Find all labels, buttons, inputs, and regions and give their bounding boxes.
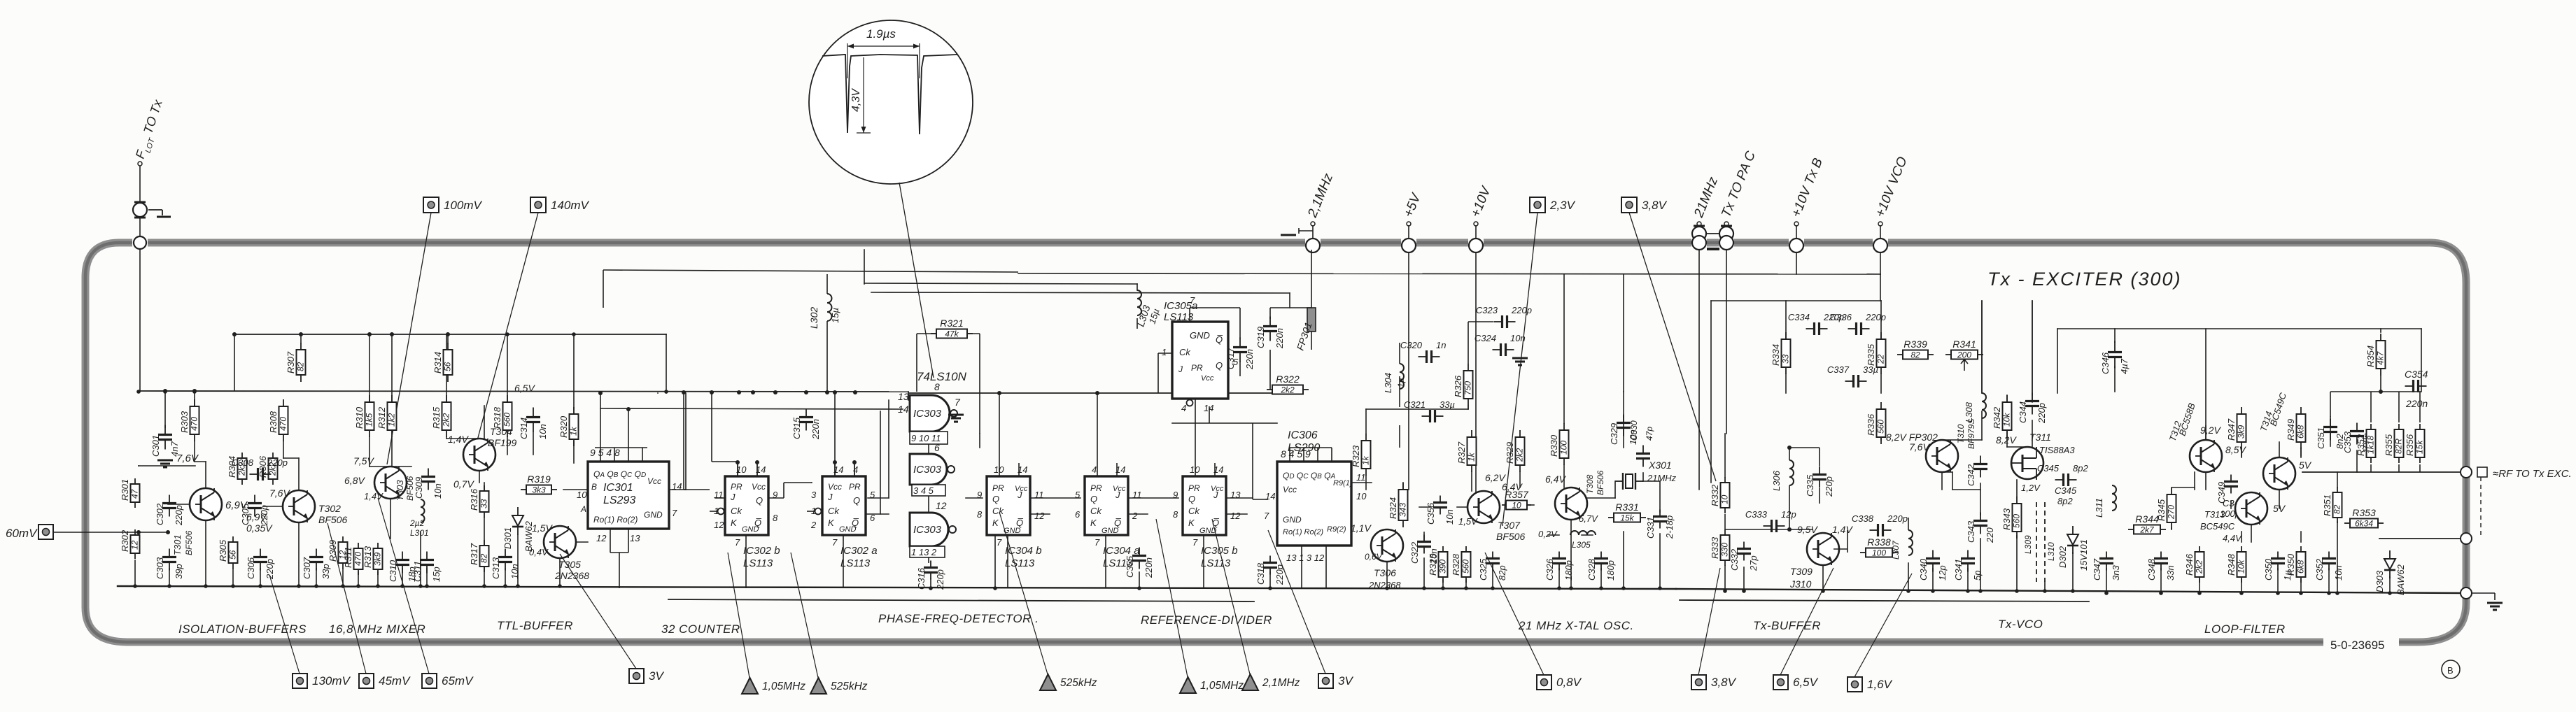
svg-text:IC306: IC306 xyxy=(1288,429,1318,441)
svg-text:R316: R316 xyxy=(469,488,479,511)
svg-text:J310: J310 xyxy=(1789,578,1812,590)
svg-text:C317: C317 xyxy=(1225,347,1236,369)
svg-text:10n: 10n xyxy=(537,424,548,439)
svg-text:C314: C314 xyxy=(519,418,529,439)
svg-text:10: 10 xyxy=(1720,494,1730,504)
svg-text:T302: T302 xyxy=(318,503,341,514)
svg-text:4: 4 xyxy=(1181,403,1186,413)
svg-text:220p: 220p xyxy=(174,505,184,526)
svg-text:21 MHz X-TAL OSC.: 21 MHz X-TAL OSC. xyxy=(1518,619,1634,632)
svg-text:C303: C303 xyxy=(155,557,165,579)
svg-text:470: 470 xyxy=(353,552,363,566)
svg-text:82: 82 xyxy=(479,553,489,563)
svg-text:R315: R315 xyxy=(431,406,442,429)
svg-text:R328: R328 xyxy=(1451,553,1461,576)
svg-text:7,5V: 7,5V xyxy=(353,455,374,467)
svg-text:R312: R312 xyxy=(376,406,387,429)
svg-text:C356: C356 xyxy=(1426,502,1436,525)
svg-text:750: 750 xyxy=(1463,381,1473,395)
svg-text:R336: R336 xyxy=(1866,413,1876,436)
svg-text:L306: L306 xyxy=(1771,470,1782,491)
svg-text:3: 3 xyxy=(811,490,817,500)
svg-text:15µ: 15µ xyxy=(830,308,840,323)
svg-text:3k9: 3k9 xyxy=(2237,425,2246,439)
svg-text:7: 7 xyxy=(735,537,740,548)
svg-text:BF979S: BF979S xyxy=(1966,419,1976,449)
svg-text:7: 7 xyxy=(1192,537,1198,548)
svg-text:4: 4 xyxy=(853,464,858,475)
svg-text:R320: R320 xyxy=(558,415,569,438)
svg-text:L311: L311 xyxy=(2094,498,2104,518)
svg-text:C330: C330 xyxy=(1629,420,1639,441)
svg-text:C338: C338 xyxy=(1852,513,1874,524)
svg-text:BAW62: BAW62 xyxy=(2395,564,2406,595)
svg-text:R325: R325 xyxy=(1428,553,1438,576)
svg-text:2k2: 2k2 xyxy=(442,413,451,427)
svg-text:8,5V: 8,5V xyxy=(2225,444,2246,455)
svg-text:TIS88A3: TIS88A3 xyxy=(2039,445,2075,455)
svg-text:GND: GND xyxy=(839,525,857,534)
svg-text:R317: R317 xyxy=(469,543,479,565)
svg-text:1: 1 xyxy=(1162,347,1167,357)
svg-text:5V: 5V xyxy=(2299,460,2312,471)
svg-text:1,05MHz: 1,05MHz xyxy=(762,681,805,692)
svg-text:J: J xyxy=(827,492,833,502)
svg-text:D303: D303 xyxy=(2374,570,2385,592)
svg-text:1,4V: 1,4V xyxy=(448,434,469,445)
svg-text:C319: C319 xyxy=(1255,327,1266,348)
svg-text:Ck: Ck xyxy=(1090,506,1102,516)
svg-text:6,4V: 6,4V xyxy=(1545,474,1566,485)
svg-text:2k2: 2k2 xyxy=(1280,385,1295,395)
svg-text:8p2: 8p2 xyxy=(2073,463,2088,474)
svg-text:220n: 220n xyxy=(2405,398,2428,409)
svg-text:47p: 47p xyxy=(1645,427,1654,441)
svg-text:X301: X301 xyxy=(1648,460,1672,471)
svg-text:10k: 10k xyxy=(2237,560,2246,574)
svg-text:39p: 39p xyxy=(174,564,184,579)
svg-text:≈RF TO Tx EXC.: ≈RF TO Tx EXC. xyxy=(2493,468,2572,480)
svg-text:3V: 3V xyxy=(649,669,664,683)
svg-text:1k5: 1k5 xyxy=(365,413,374,427)
svg-text:8: 8 xyxy=(977,509,983,520)
svg-text:7: 7 xyxy=(955,397,961,408)
svg-text:Q: Q xyxy=(756,495,763,506)
svg-text:C345: C345 xyxy=(2037,463,2060,474)
svg-text:D302: D302 xyxy=(2057,546,2068,568)
svg-text:R311: R311 xyxy=(343,547,353,568)
svg-text:1,2V: 1,2V xyxy=(2021,483,2041,493)
svg-text:3k3: 3k3 xyxy=(532,485,546,495)
svg-text:5: 5 xyxy=(1075,490,1081,500)
svg-text:7: 7 xyxy=(997,537,1002,548)
svg-text:11: 11 xyxy=(1132,490,1142,500)
svg-text:6k8: 6k8 xyxy=(2296,425,2306,439)
svg-text:R345: R345 xyxy=(2156,499,2167,521)
svg-text:T308: T308 xyxy=(1585,474,1595,494)
svg-text:C348: C348 xyxy=(2146,558,2157,581)
svg-text:Vcc: Vcc xyxy=(1283,485,1297,494)
svg-text:Q: Q xyxy=(1090,494,1097,504)
svg-text:Tx-VCO: Tx-VCO xyxy=(1998,618,2043,631)
svg-text:2k2: 2k2 xyxy=(2195,560,2204,574)
svg-text:R351: R351 xyxy=(2322,494,2332,516)
svg-text:45mV: 45mV xyxy=(379,674,411,688)
svg-text:Tx-BUFFER: Tx-BUFFER xyxy=(1753,619,1821,632)
svg-text:R353: R353 xyxy=(2352,507,2376,518)
svg-text:Ck: Ck xyxy=(828,506,840,516)
svg-text:R323: R323 xyxy=(1351,445,1361,467)
svg-text:C322: C322 xyxy=(1409,541,1420,564)
svg-text:R335: R335 xyxy=(1866,343,1876,366)
svg-text:1,5V: 1,5V xyxy=(1458,516,1478,527)
svg-text:PR: PR xyxy=(1191,363,1203,373)
svg-text:LS113: LS113 xyxy=(1005,557,1035,569)
svg-text:56: 56 xyxy=(228,550,238,560)
svg-text:C342: C342 xyxy=(1966,464,1976,486)
svg-text:343: 343 xyxy=(1398,503,1408,517)
svg-text:PR: PR xyxy=(1090,483,1102,493)
svg-text:R9(2): R9(2) xyxy=(1327,525,1346,534)
svg-text:T310: T310 xyxy=(1956,424,1966,443)
svg-text:1,6V: 1,6V xyxy=(1867,678,1893,691)
svg-text:C351: C351 xyxy=(2316,427,2326,449)
svg-text:8: 8 xyxy=(934,381,940,392)
svg-text:82: 82 xyxy=(296,362,306,371)
svg-text:GND: GND xyxy=(644,510,663,520)
svg-text:2,1MHz: 2,1MHz xyxy=(1262,677,1300,689)
svg-text:14: 14 xyxy=(898,404,909,415)
svg-text:33: 33 xyxy=(1781,354,1791,364)
svg-text:12: 12 xyxy=(936,500,947,511)
svg-text:J: J xyxy=(1017,490,1022,500)
svg-text:47k: 47k xyxy=(945,329,959,339)
svg-text:2,3V: 2,3V xyxy=(1549,199,1576,212)
svg-text:C316: C316 xyxy=(916,567,927,590)
svg-text:9,2V: 9,2V xyxy=(2200,425,2221,436)
svg-text:TTL-BUFFER: TTL-BUFFER xyxy=(497,619,573,632)
svg-text:Ro(1) Ro(2): Ro(1) Ro(2) xyxy=(593,515,638,525)
svg-text:C320: C320 xyxy=(1400,340,1423,350)
svg-text:10n: 10n xyxy=(432,483,443,499)
svg-text:33µ: 33µ xyxy=(1863,364,1878,375)
svg-text:T303: T303 xyxy=(395,480,405,501)
svg-text:LOOP-FILTER: LOOP-FILTER xyxy=(2204,622,2286,636)
svg-text:82p: 82p xyxy=(1497,565,1507,581)
svg-text:C315: C315 xyxy=(791,417,802,439)
svg-text:0,35V: 0,35V xyxy=(246,522,273,534)
svg-text:PR: PR xyxy=(849,482,861,492)
svg-text:220: 220 xyxy=(1985,527,1995,543)
svg-text:220p: 220p xyxy=(935,569,945,590)
svg-text:33: 33 xyxy=(479,499,489,508)
svg-text:Ck: Ck xyxy=(731,506,742,516)
svg-text:Q: Q xyxy=(1188,494,1195,504)
svg-text:2: 2 xyxy=(1132,511,1138,521)
svg-text:C324: C324 xyxy=(1474,333,1496,343)
svg-text:R348: R348 xyxy=(2226,553,2237,576)
svg-text:5: 5 xyxy=(870,490,875,500)
svg-text:1,05MHz: 1,05MHz xyxy=(1200,680,1244,692)
svg-text:13: 13 xyxy=(630,533,640,543)
svg-text:1,5V: 1,5V xyxy=(532,522,553,534)
svg-text:Ck: Ck xyxy=(1179,347,1191,357)
svg-text:10n: 10n xyxy=(1444,509,1455,525)
svg-text:4,3V: 4,3V xyxy=(850,88,862,112)
svg-text:220p: 220p xyxy=(1824,476,1834,497)
svg-text:C329: C329 xyxy=(1609,423,1619,445)
svg-text:GND: GND xyxy=(742,525,759,534)
svg-text:56: 56 xyxy=(443,362,453,371)
svg-text:C341: C341 xyxy=(1953,559,1964,581)
svg-text:R357: R357 xyxy=(1505,489,1529,500)
svg-text:T307: T307 xyxy=(1498,520,1521,531)
svg-text:C352: C352 xyxy=(2314,558,2325,581)
svg-text:74LS10N: 74LS10N xyxy=(917,370,967,383)
svg-text:C328: C328 xyxy=(1586,558,1597,581)
svg-text:C313: C313 xyxy=(491,557,501,579)
svg-text:180p: 180p xyxy=(1563,560,1574,581)
svg-text:13: 13 xyxy=(898,391,909,402)
svg-text:1,4V: 1,4V xyxy=(1832,524,1853,535)
svg-text:R350: R350 xyxy=(2286,553,2296,576)
svg-text:BC549C: BC549C xyxy=(2200,521,2235,532)
svg-text:C343: C343 xyxy=(1966,520,1976,543)
svg-text:R356: R356 xyxy=(2405,434,2415,456)
svg-text:QD QC QB QA: QD QC QB QA xyxy=(1283,471,1336,480)
svg-text:R321: R321 xyxy=(940,318,963,329)
svg-text:10: 10 xyxy=(1512,501,1521,511)
svg-text:L308: L308 xyxy=(1964,401,1974,422)
svg-text:8,2V: 8,2V xyxy=(1996,434,2017,446)
svg-text:K: K xyxy=(1188,518,1195,528)
svg-text:7: 7 xyxy=(672,508,677,518)
svg-text:2-18p: 2-18p xyxy=(1664,515,1675,539)
svg-text:5V: 5V xyxy=(2273,503,2286,514)
svg-text:1k: 1k xyxy=(1361,455,1371,465)
svg-text:13: 13 xyxy=(1230,490,1241,500)
svg-text:0,8V: 0,8V xyxy=(1556,676,1582,689)
svg-text:47: 47 xyxy=(130,488,140,499)
svg-text:R314: R314 xyxy=(432,352,443,373)
svg-text:L310: L310 xyxy=(2046,542,2056,561)
svg-text:R341: R341 xyxy=(1952,339,1976,350)
svg-text:Vcc: Vcc xyxy=(1201,374,1214,383)
svg-text:R329: R329 xyxy=(1505,442,1515,464)
svg-text:12: 12 xyxy=(1034,511,1045,521)
svg-text:IC302 b: IC302 b xyxy=(743,545,780,557)
svg-text:2µ2: 2µ2 xyxy=(409,518,425,528)
svg-text:4k7: 4k7 xyxy=(2376,350,2386,365)
svg-text:8: 8 xyxy=(1173,509,1178,520)
svg-text:220n: 220n xyxy=(1244,349,1255,370)
svg-text:IC303: IC303 xyxy=(913,408,942,420)
svg-text:10n: 10n xyxy=(2333,565,2344,581)
svg-text:82: 82 xyxy=(1910,350,1920,360)
svg-text:K: K xyxy=(1090,518,1097,528)
svg-text:1k18: 1k18 xyxy=(2366,436,2376,454)
svg-text:R339: R339 xyxy=(1903,339,1927,350)
svg-text:IC303: IC303 xyxy=(913,464,942,476)
svg-text:A: A xyxy=(580,504,586,514)
svg-text:8,2V FP302: 8,2V FP302 xyxy=(1886,432,1938,443)
svg-text:C311: C311 xyxy=(412,561,423,582)
svg-text:L304: L304 xyxy=(1383,373,1393,393)
svg-text:220n: 220n xyxy=(1143,557,1154,578)
svg-text:R330: R330 xyxy=(1549,434,1559,457)
svg-text:C354: C354 xyxy=(2405,369,2428,380)
svg-text:Ro(1) Ro(2): Ro(1) Ro(2) xyxy=(1283,528,1323,536)
svg-text:R349: R349 xyxy=(2286,419,2296,441)
svg-text:6,5V: 6,5V xyxy=(514,383,535,394)
svg-text:3,8V: 3,8V xyxy=(1711,676,1737,689)
svg-text:R307: R307 xyxy=(286,351,296,373)
svg-text:LS113: LS113 xyxy=(840,557,871,569)
svg-text:R308: R308 xyxy=(268,411,279,433)
svg-text:6,8V: 6,8V xyxy=(344,475,365,486)
svg-text:C325: C325 xyxy=(1478,558,1488,581)
svg-text:Q: Q xyxy=(992,494,999,504)
svg-text:T311: T311 xyxy=(2029,432,2051,443)
svg-text:LS293: LS293 xyxy=(603,494,635,506)
svg-text:560: 560 xyxy=(502,413,512,427)
svg-text:C332: C332 xyxy=(1729,548,1740,571)
svg-text:200: 200 xyxy=(1957,350,1971,360)
svg-text:100: 100 xyxy=(1872,548,1886,558)
svg-text:C347: C347 xyxy=(2092,558,2102,581)
svg-text:10: 10 xyxy=(1356,491,1367,501)
svg-text:R327: R327 xyxy=(1456,441,1467,464)
svg-text:C326: C326 xyxy=(1544,558,1555,581)
svg-text:R346: R346 xyxy=(2184,553,2195,576)
svg-text:GND: GND xyxy=(1102,527,1119,535)
svg-text:L309: L309 xyxy=(2023,535,2033,554)
svg-text:B: B xyxy=(591,482,597,492)
svg-text:100: 100 xyxy=(1559,441,1569,455)
svg-text:K: K xyxy=(828,518,835,528)
svg-text:1k: 1k xyxy=(1467,452,1477,462)
svg-text:R313: R313 xyxy=(363,546,373,568)
svg-text:C321: C321 xyxy=(1404,399,1426,410)
svg-text:220p: 220p xyxy=(1511,305,1532,315)
svg-text:220p: 220p xyxy=(1887,513,1908,524)
svg-text:C346: C346 xyxy=(2100,352,2111,374)
svg-text:82: 82 xyxy=(2332,504,2342,514)
svg-text:7,6V: 7,6V xyxy=(269,487,290,499)
svg-text:4: 4 xyxy=(1092,464,1097,475)
svg-text:R322: R322 xyxy=(1276,373,1300,385)
svg-text:J: J xyxy=(1213,490,1218,500)
svg-text:R347: R347 xyxy=(2226,418,2237,441)
svg-text:220n: 220n xyxy=(1274,328,1285,349)
svg-text:IC305 b: IC305 b xyxy=(1201,545,1238,557)
svg-text:B: B xyxy=(2447,665,2454,676)
svg-text:PR: PR xyxy=(731,482,742,492)
svg-text:C308: C308 xyxy=(232,457,254,468)
svg-text:R305: R305 xyxy=(218,539,228,562)
svg-text:33n: 33n xyxy=(2165,565,2176,581)
svg-text:GND: GND xyxy=(1283,515,1302,525)
svg-text:T313: T313 xyxy=(2204,509,2225,520)
svg-text:C309: C309 xyxy=(414,477,424,499)
svg-text:21MHz: 21MHz xyxy=(1647,473,1677,483)
svg-text:C355: C355 xyxy=(1125,555,1135,578)
svg-text:R333: R333 xyxy=(1710,536,1720,559)
svg-text:K: K xyxy=(731,518,738,528)
svg-text:2k7: 2k7 xyxy=(2139,525,2155,535)
svg-text:14: 14 xyxy=(672,481,682,492)
svg-text:470: 470 xyxy=(279,417,288,431)
svg-text:LS113: LS113 xyxy=(743,557,773,569)
svg-text:33µ: 33µ xyxy=(1440,399,1455,410)
svg-text:R324: R324 xyxy=(1388,497,1398,519)
svg-text:T309: T309 xyxy=(1790,566,1813,577)
svg-text:Ck: Ck xyxy=(1188,506,1200,516)
svg-text:6k8: 6k8 xyxy=(2296,560,2306,574)
svg-text:3n3: 3n3 xyxy=(2111,565,2121,581)
svg-text:10k: 10k xyxy=(2002,413,2012,427)
svg-text:Q: Q xyxy=(853,495,860,506)
svg-text:32 COUNTER: 32 COUNTER xyxy=(661,622,740,636)
svg-text:1,1V: 1,1V xyxy=(1351,522,1372,534)
svg-text:2k2: 2k2 xyxy=(1515,448,1525,462)
svg-text:0,7V: 0,7V xyxy=(453,478,474,490)
svg-text:12: 12 xyxy=(1230,511,1241,521)
svg-text:R343: R343 xyxy=(2001,508,2012,530)
svg-text:C302: C302 xyxy=(155,503,165,525)
svg-text:IC303: IC303 xyxy=(913,524,942,536)
svg-text:6: 6 xyxy=(870,513,875,523)
svg-text:L302: L302 xyxy=(808,307,819,329)
svg-text:11: 11 xyxy=(1356,472,1366,483)
svg-text:10n: 10n xyxy=(1510,333,1526,343)
svg-text:60mV: 60mV xyxy=(6,527,38,540)
svg-text:12p: 12p xyxy=(1937,565,1948,581)
svg-text:J: J xyxy=(1115,490,1120,500)
svg-text:R303: R303 xyxy=(179,411,190,433)
svg-text:4,4V: 4,4V xyxy=(2223,533,2242,543)
svg-text:LS113: LS113 xyxy=(1201,557,1231,569)
svg-text:10: 10 xyxy=(577,490,587,500)
svg-text:J: J xyxy=(730,492,736,502)
svg-text:15V101: 15V101 xyxy=(2078,539,2089,571)
svg-text:6,9V: 6,9V xyxy=(246,511,267,522)
svg-text:Tx - EXCITER (300): Tx - EXCITER (300) xyxy=(1987,269,2182,290)
svg-text:220p: 220p xyxy=(1865,312,1886,322)
svg-text:1µ: 1µ xyxy=(1396,378,1406,387)
svg-text:BF199: BF199 xyxy=(488,437,516,448)
svg-text:220p: 220p xyxy=(2036,403,2047,424)
svg-text:8p2: 8p2 xyxy=(2057,496,2073,506)
svg-text:1n: 1n xyxy=(1436,340,1446,350)
svg-text:R342: R342 xyxy=(1992,406,2002,429)
svg-text:R301: R301 xyxy=(120,479,130,501)
svg-text:3k9: 3k9 xyxy=(373,552,383,566)
svg-text:2N2368: 2N2368 xyxy=(1368,580,1401,590)
svg-text:C345: C345 xyxy=(2055,485,2077,496)
svg-text:9 5 4 8: 9 5 4 8 xyxy=(590,447,620,458)
svg-text:C334: C334 xyxy=(1788,312,1810,322)
svg-text:15k: 15k xyxy=(2415,440,2425,454)
svg-text:65mV: 65mV xyxy=(442,674,474,688)
svg-text:7: 7 xyxy=(1095,537,1100,548)
svg-text:R319: R319 xyxy=(527,474,551,485)
svg-text:1.9µs: 1.9µs xyxy=(866,27,896,41)
svg-text:560: 560 xyxy=(1876,420,1886,434)
svg-text:27p: 27p xyxy=(1748,555,1759,571)
svg-text:R332: R332 xyxy=(1710,484,1720,506)
svg-text:IC301: IC301 xyxy=(603,482,633,494)
